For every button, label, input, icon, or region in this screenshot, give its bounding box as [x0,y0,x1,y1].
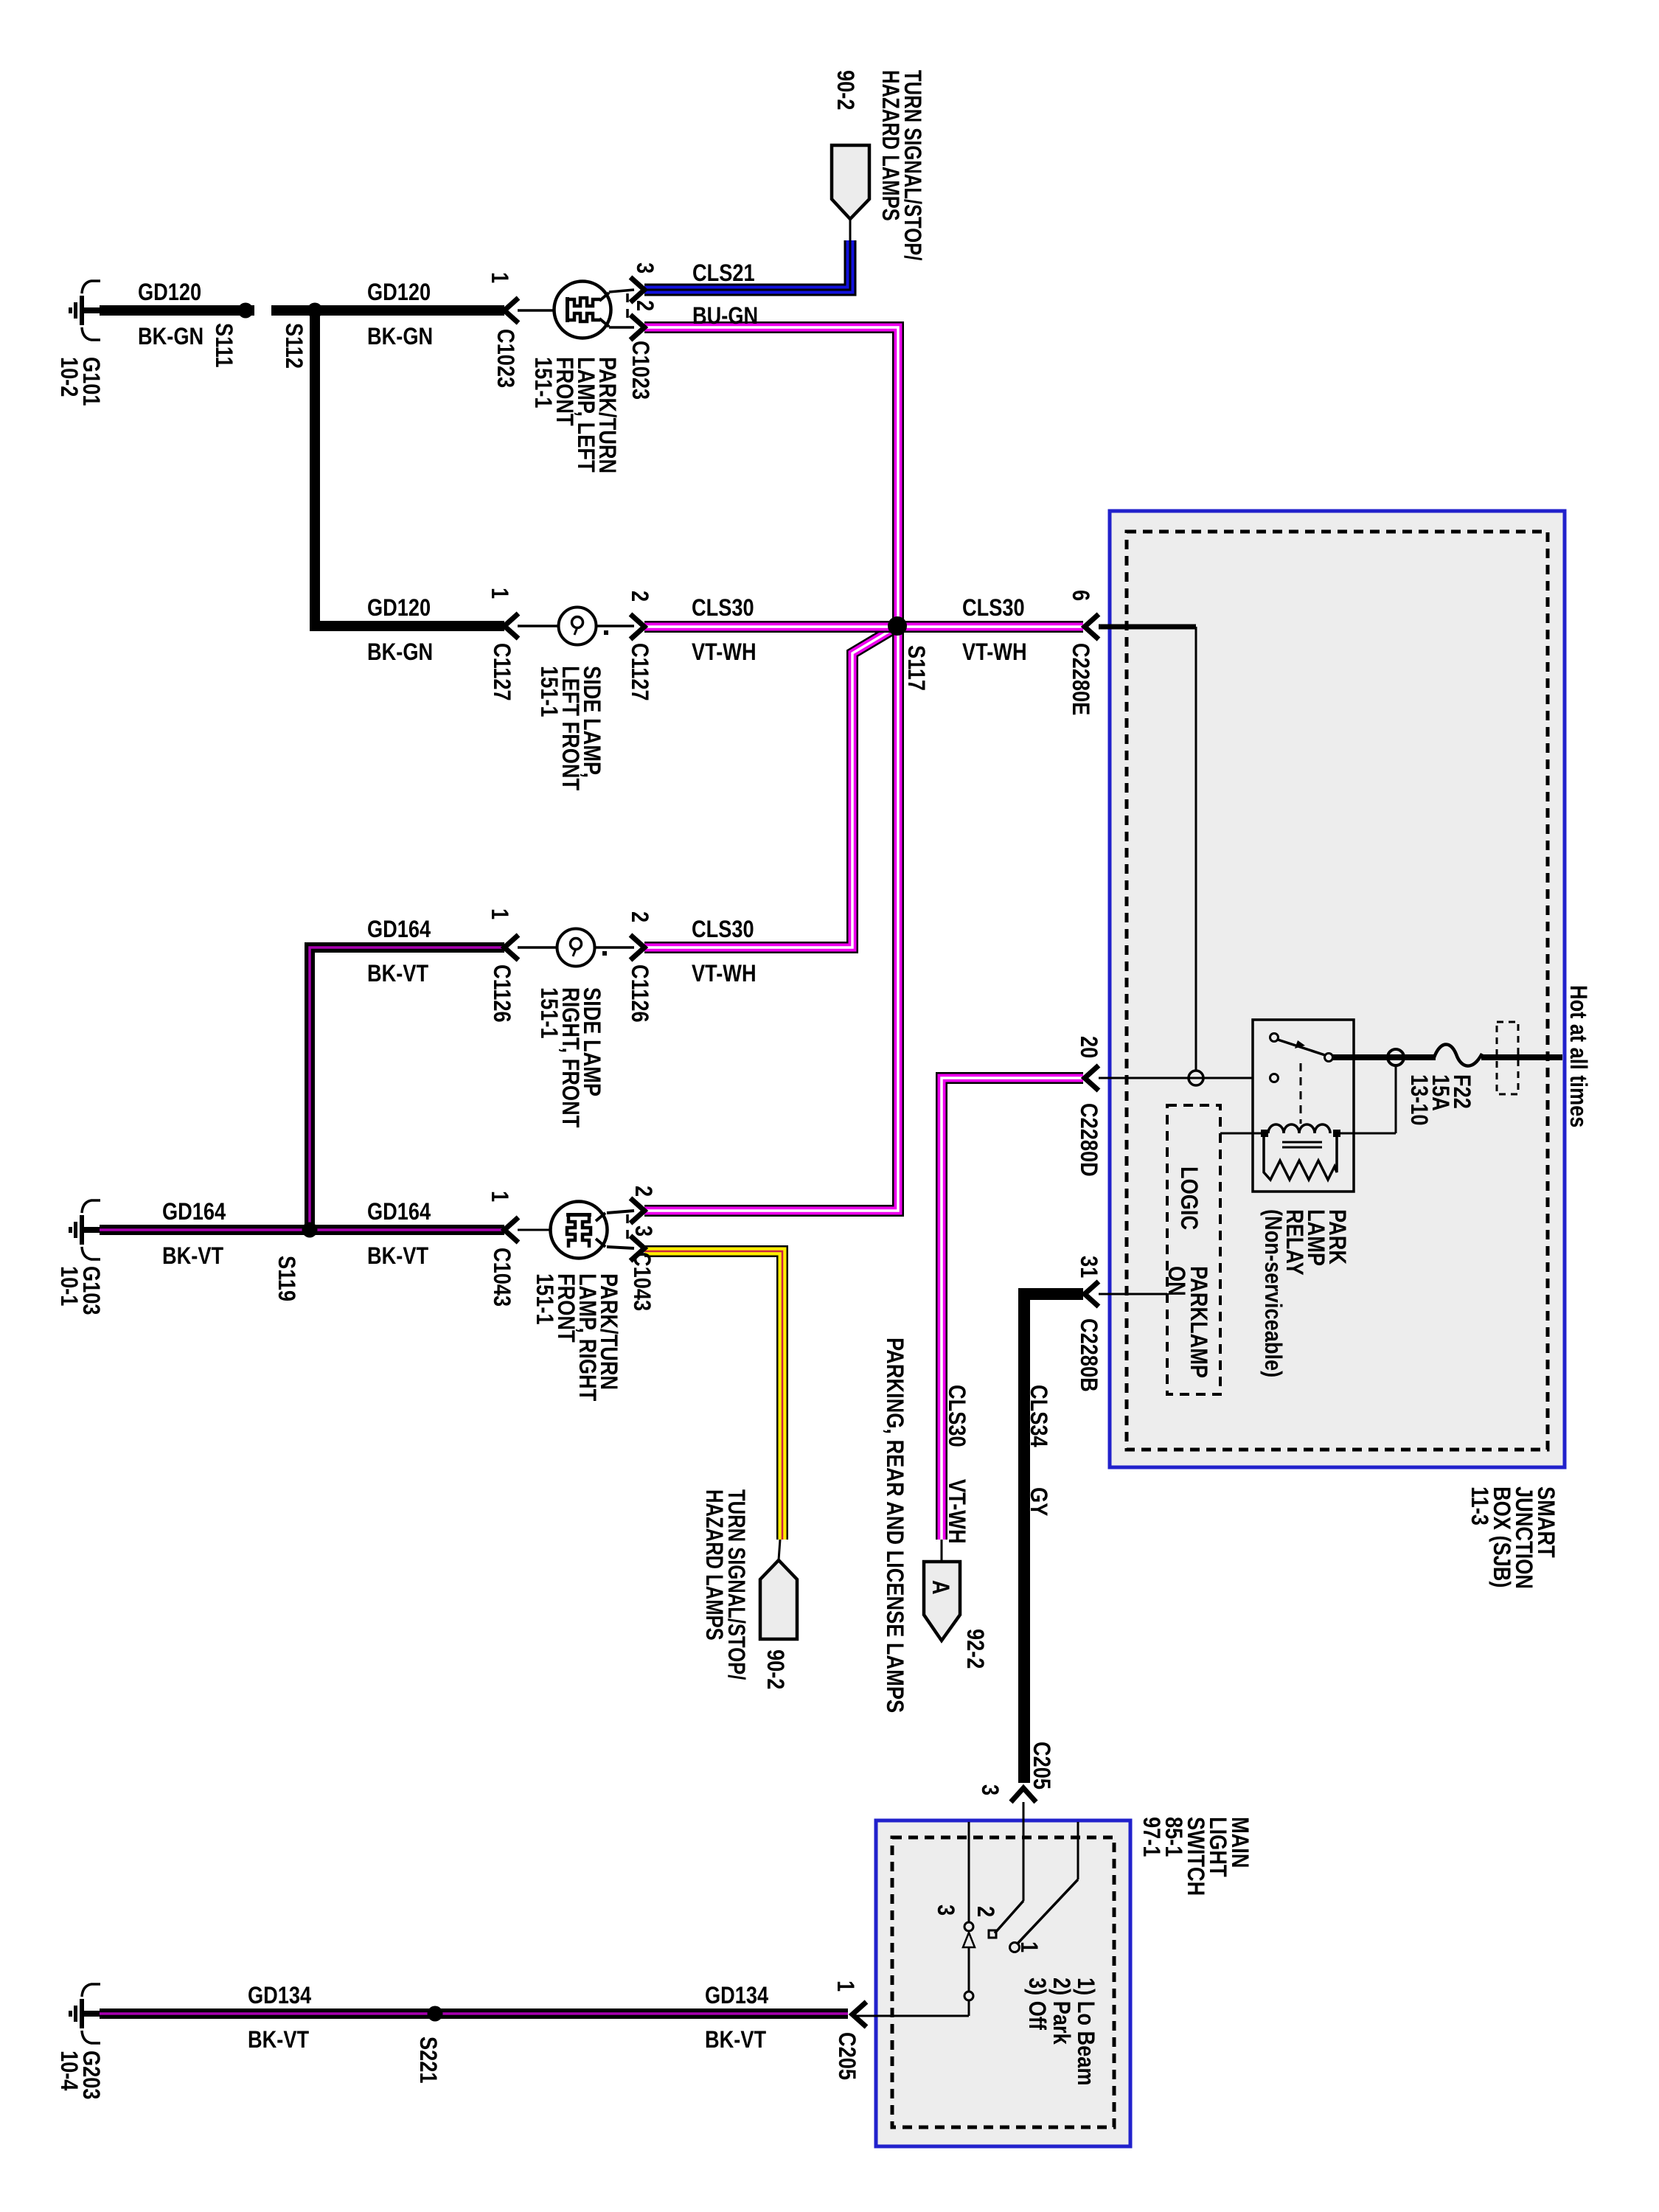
svg-text:GD164: GD164 [367,917,431,943]
svg-text:A: A [927,1580,953,1595]
svg-text:GD164: GD164 [367,1199,431,1225]
svg-text:C1126: C1126 [626,964,653,1023]
svg-text:S111: S111 [210,323,237,368]
svg-text:10-1: 10-1 [55,1266,82,1306]
svg-text:151-1: 151-1 [535,987,562,1039]
svg-text:CLS30: CLS30 [943,1385,970,1447]
svg-text:3: 3 [976,1784,1003,1795]
svg-text:GY: GY [1025,1487,1051,1516]
svg-text:1: 1 [1015,1941,1042,1952]
svg-text:C2280D: C2280D [1075,1103,1102,1177]
svg-text:10-2: 10-2 [55,357,82,397]
svg-text:C1127: C1127 [626,643,653,701]
svg-text:2: 2 [972,1906,998,1917]
svg-text:GD134: GD134 [248,1983,312,2009]
svg-text:11-3: 11-3 [1466,1486,1492,1526]
svg-text:VT-WH: VT-WH [692,639,757,666]
svg-text:S117: S117 [902,645,929,691]
svg-text:3) Off: 3) Off [1023,1978,1050,2030]
svg-text:C2280E: C2280E [1067,643,1093,715]
svg-text:20: 20 [1075,1036,1102,1058]
svg-text:S221: S221 [414,2037,441,2084]
svg-text:CLS30: CLS30 [962,595,1025,622]
svg-text:2: 2 [626,591,653,602]
svg-text:HAZARD LAMPS: HAZARD LAMPS [700,1489,726,1641]
svg-text:1) Lo Beam: 1) Lo Beam [1072,1978,1099,2086]
svg-text:BK-VT: BK-VT [162,1243,223,1270]
svg-text:C1023: C1023 [492,329,518,388]
svg-text:2: 2 [626,911,653,922]
svg-text:C1126: C1126 [488,964,515,1023]
svg-text:6: 6 [1067,590,1093,601]
svg-text:VT-WH: VT-WH [692,961,757,987]
svg-text:3: 3 [932,1905,959,1916]
svg-text:BK-VT: BK-VT [367,961,428,987]
svg-text:BK-VT: BK-VT [367,1243,428,1270]
svg-text:151-1: 151-1 [529,357,556,408]
svg-text:2: 2 [631,300,658,311]
svg-text:CLS34: CLS34 [1025,1385,1051,1447]
svg-text:92-2: 92-2 [961,1629,988,1669]
svg-text:ON: ON [1163,1266,1189,1296]
svg-text:BK-GN: BK-GN [367,324,433,350]
svg-text:1: 1 [832,1980,858,1992]
svg-text:C205: C205 [1028,1742,1054,1790]
svg-text:VT-WH: VT-WH [943,1479,970,1544]
svg-text:Hot at all times: Hot at all times [1565,985,1591,1127]
svg-text:GD134: GD134 [705,1983,769,2009]
svg-text:CLS21: CLS21 [692,260,755,287]
svg-text:3: 3 [631,262,658,274]
svg-text:BK-VT: BK-VT [248,2027,309,2053]
svg-text:151-1: 151-1 [535,666,562,717]
svg-text:1: 1 [486,588,512,599]
svg-text:VT-WH: VT-WH [962,639,1027,666]
svg-text:1: 1 [486,272,512,283]
svg-text:S119: S119 [273,1256,299,1301]
svg-text:C1127: C1127 [488,643,515,701]
svg-text:C205: C205 [833,2032,860,2080]
svg-text:PARKING, REAR AND LICENSE LAMP: PARKING, REAR AND LICENSE LAMPS [881,1338,908,1713]
svg-text:151-1: 151-1 [531,1273,557,1325]
svg-text:2: 2 [630,1186,656,1197]
svg-text:1: 1 [486,908,512,919]
svg-text:3: 3 [630,1225,656,1237]
svg-text:GD120: GD120 [367,595,431,622]
svg-text:C2280B: C2280B [1075,1318,1102,1392]
svg-text:90-2: 90-2 [762,1649,788,1689]
svg-text:C1043: C1043 [628,1252,655,1311]
svg-text:10-4: 10-4 [55,2051,82,2091]
svg-text:BK-GN: BK-GN [138,324,204,350]
svg-text:GD120: GD120 [367,279,431,306]
svg-text:CLS30: CLS30 [692,595,754,622]
svg-text:C1043: C1043 [488,1248,515,1307]
svg-text:BK-GN: BK-GN [367,639,433,666]
svg-text:S112: S112 [280,323,307,369]
svg-text:90-2: 90-2 [832,70,858,110]
svg-text:13-10: 13-10 [1405,1074,1432,1126]
svg-text:CLS30: CLS30 [692,917,754,943]
svg-text:(Non-serviceable): (Non-serviceable) [1259,1209,1286,1377]
svg-text:BK-VT: BK-VT [705,2027,766,2053]
svg-text:2) Park: 2) Park [1048,1978,1074,2045]
svg-text:BU-GN: BU-GN [692,303,758,330]
svg-text:GD120: GD120 [138,279,201,306]
svg-text:97-1: 97-1 [1138,1817,1164,1857]
svg-text:31: 31 [1075,1256,1102,1278]
svg-text:C1023: C1023 [627,341,653,400]
svg-text:1: 1 [486,1191,512,1202]
svg-text:GD164: GD164 [162,1199,226,1225]
svg-text:LOGIC: LOGIC [1175,1166,1202,1230]
svg-text:HAZARD LAMPS: HAZARD LAMPS [877,70,902,221]
